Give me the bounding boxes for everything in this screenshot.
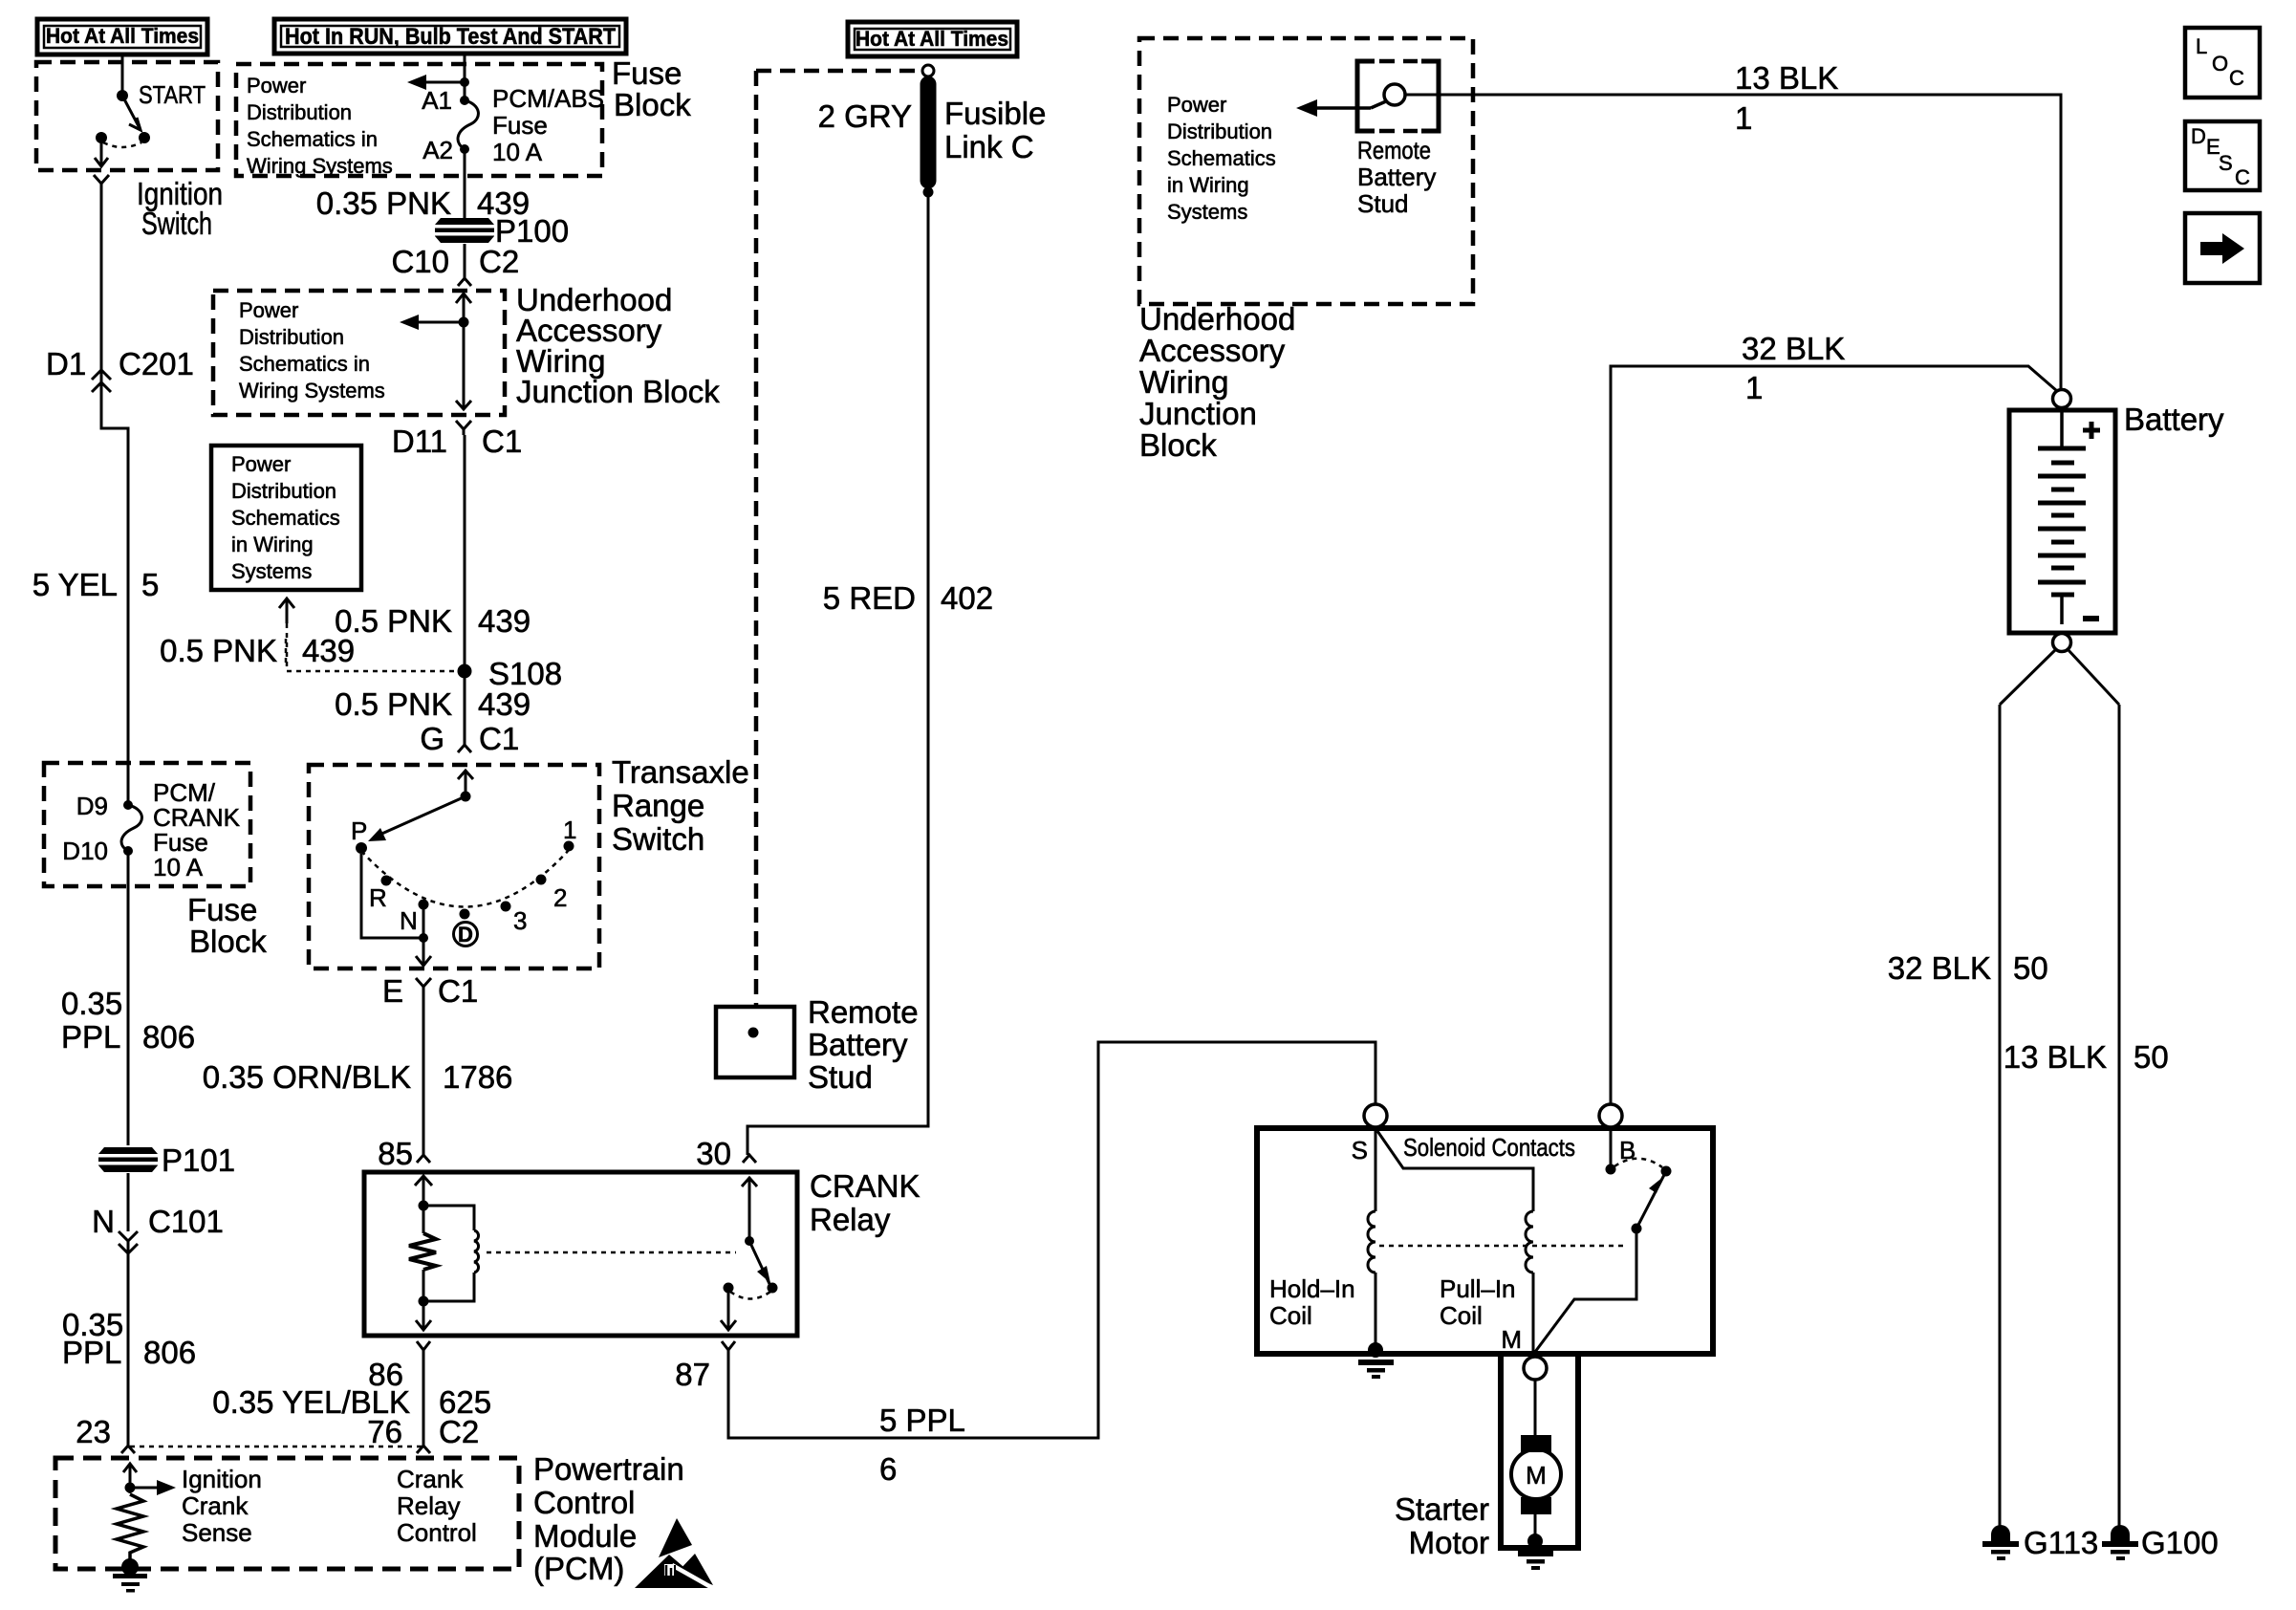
- svg-text:D: D: [2191, 124, 2206, 148]
- label Powertrain Control Module (PCM): [533, 1451, 684, 1586]
- svg-text:5: 5: [141, 567, 159, 602]
- svg-text:Hot At All Times: Hot At All Times: [856, 27, 1008, 51]
- svg-text:Systems: Systems: [231, 559, 312, 583]
- ground at PCM: [113, 1558, 147, 1593]
- wire D11 to S108: [464, 435, 466, 671]
- svg-text:Hold–In: Hold–In: [1269, 1274, 1355, 1303]
- wire S108 down, female connector G/C1: [458, 671, 471, 752]
- wire 86 to PCM 76: [422, 1356, 425, 1446]
- svg-text:0.35 ORN/BLK: 0.35 ORN/BLK: [203, 1059, 411, 1095]
- svg-text:Switch: Switch: [612, 821, 704, 857]
- svg-text:5 YEL: 5 YEL: [32, 567, 118, 602]
- svg-text:Junction: Junction: [1139, 396, 1257, 431]
- wire E to relay 85: [422, 992, 425, 1155]
- svg-text:N: N: [400, 906, 418, 935]
- svg-text:C2: C2: [479, 244, 519, 279]
- pin 85 female connector: [378, 1136, 430, 1171]
- fuse PCM/CRANK 10A: [62, 778, 240, 881]
- wire label 13 BLK 50: [2004, 1039, 2169, 1075]
- wire label 5 RED 402: [823, 580, 993, 616]
- svg-text:87: 87: [675, 1357, 710, 1392]
- svg-text:G113: G113: [2024, 1525, 2098, 1560]
- svg-text:C1: C1: [482, 424, 522, 459]
- svg-text:C201: C201: [119, 346, 194, 381]
- svg-text:D: D: [458, 923, 473, 946]
- wire label 0.35 PPL 806 (upper): [61, 986, 195, 1055]
- solid box Power Distribution Schematics in Wiring Systems: [211, 446, 361, 590]
- wire label 0.5 PNK 439 (above S108): [335, 603, 531, 639]
- svg-text:Power: Power: [239, 298, 298, 322]
- svg-text:5 PPL: 5 PPL: [879, 1403, 965, 1438]
- svg-text:Distribution: Distribution: [231, 479, 336, 503]
- wire label 0.35 PNK 439: [316, 185, 530, 221]
- svg-text:32 BLK: 32 BLK: [1742, 331, 1845, 366]
- svg-text:C: C: [2235, 165, 2250, 189]
- svg-text:Fuse: Fuse: [187, 892, 257, 927]
- svg-text:Range: Range: [612, 788, 704, 823]
- svg-text:Block: Block: [614, 87, 691, 122]
- svg-text:A1: A1: [422, 86, 452, 115]
- svg-text:B: B: [1619, 1136, 1635, 1164]
- relay dashed actuator link: [487, 1251, 736, 1254]
- svg-text:Distribution: Distribution: [239, 325, 344, 349]
- wire label 32 BLK 50: [1888, 950, 2048, 986]
- PCM internal labels: [182, 1465, 477, 1547]
- svg-text:85: 85: [378, 1136, 413, 1171]
- grommet P101: [96, 1142, 235, 1178]
- wire below fuse to P101: [127, 851, 130, 1145]
- svg-text:Stud: Stud: [1357, 189, 1409, 218]
- fuse block dashed box (top): [236, 64, 602, 176]
- svg-text:PCM/ABS: PCM/ABS: [492, 84, 604, 113]
- svg-text:Coil: Coil: [1440, 1301, 1483, 1330]
- svg-text:439: 439: [302, 633, 355, 668]
- solenoid terminals S and B: [1352, 1104, 1636, 1164]
- wire label 0.35 ORN/BLK 1786: [203, 1059, 513, 1095]
- splice S108: [458, 656, 563, 691]
- svg-text:10 A: 10 A: [492, 138, 543, 166]
- svg-text:N: N: [92, 1204, 115, 1239]
- svg-text:C1: C1: [438, 973, 478, 1009]
- svg-text:Remote: Remote: [808, 994, 919, 1030]
- fuse PCM/ABS 10A: [422, 86, 478, 164]
- pin 23 female connector into PCM: [76, 1414, 135, 1453]
- transaxle switch internals: [356, 771, 574, 966]
- svg-text:806: 806: [143, 1335, 196, 1370]
- svg-text:Solenoid Contacts: Solenoid Contacts: [1403, 1133, 1575, 1162]
- svg-text:Coil: Coil: [1269, 1301, 1312, 1330]
- hold-in coil: [1269, 1128, 1394, 1379]
- banner: Hot At All Times (middle): [848, 22, 1017, 56]
- wire from banner into fuse block: [464, 54, 466, 100]
- next-page arrow box: [2185, 213, 2260, 283]
- wire label 5 YEL 5: [32, 567, 160, 602]
- CRANK relay box: [364, 1172, 797, 1336]
- svg-text:E: E: [382, 973, 403, 1009]
- wire 32 BLK solenoid B to battery: [1611, 366, 2057, 1104]
- label Fuse Block (top): [612, 55, 691, 122]
- svg-text:Systems: Systems: [1167, 200, 1247, 224]
- svg-text:32 BLK: 32 BLK: [1888, 950, 1991, 986]
- svg-text:50: 50: [2134, 1039, 2169, 1075]
- svg-text:Ignition: Ignition: [182, 1465, 262, 1493]
- branch label 0.5 PNK 439: [160, 633, 355, 668]
- M terminal: [1524, 1357, 1547, 1380]
- svg-text:C2: C2: [439, 1414, 479, 1449]
- svg-text:806: 806: [142, 1019, 195, 1055]
- svg-text:1: 1: [1745, 370, 1763, 405]
- svg-text:76: 76: [367, 1414, 402, 1449]
- svg-text:Powertrain: Powertrain: [533, 1451, 684, 1487]
- svg-text:6: 6: [879, 1451, 897, 1487]
- DESC reference box: [2185, 121, 2260, 190]
- svg-text:13 BLK: 13 BLK: [1735, 60, 1838, 96]
- svg-text:0.5 PNK: 0.5 PNK: [335, 686, 452, 722]
- pin 87 female connector: [675, 1341, 735, 1392]
- svg-text:C1: C1: [479, 721, 519, 756]
- svg-text:in Wiring: in Wiring: [1167, 173, 1249, 197]
- svg-text:Power: Power: [247, 74, 306, 98]
- svg-text:Relay: Relay: [810, 1202, 891, 1237]
- svg-text:PPL: PPL: [62, 1335, 121, 1370]
- connector C201 (double chevron): [92, 370, 111, 392]
- svg-text:M: M: [1501, 1325, 1522, 1354]
- label Ignition Switch: [137, 176, 223, 241]
- svg-text:0.35: 0.35: [61, 986, 122, 1021]
- svg-text:23: 23: [76, 1414, 111, 1449]
- LOC reference box: [2185, 28, 2260, 98]
- starter solenoid box: [1257, 1128, 1713, 1354]
- svg-text:O: O: [2212, 52, 2228, 76]
- svg-text:1: 1: [563, 816, 576, 844]
- connector C101 (double chevron down): [119, 1231, 138, 1446]
- label Underhood Accessory Wiring Junction Block (right): [1139, 301, 1295, 463]
- label Underhood Accessory Wiring Junction Block: [516, 282, 720, 409]
- svg-text:13 BLK: 13 BLK: [2004, 1039, 2107, 1075]
- label Fuse Block: [187, 892, 267, 959]
- ignition switch START contact assembly: [95, 80, 206, 166]
- svg-text:Fuse: Fuse: [492, 111, 548, 140]
- svg-text:Fusible: Fusible: [944, 96, 1046, 131]
- battery negative wires to grounds: [2000, 649, 2119, 1527]
- resistor ignition crank sense: [117, 1494, 143, 1560]
- svg-text:5 RED: 5 RED: [823, 580, 916, 616]
- svg-text:P: P: [351, 816, 367, 845]
- svg-text:A2: A2: [422, 136, 453, 164]
- svg-text:START: START: [139, 80, 206, 109]
- wire label 0.35 PPL 806 (lower): [62, 1307, 196, 1370]
- svg-text:2: 2: [553, 883, 567, 912]
- svg-text:CRANK: CRANK: [810, 1168, 921, 1204]
- solenoid contact switch: [1501, 1128, 1671, 1354]
- svg-text:1786: 1786: [443, 1059, 512, 1095]
- banner: Hot At All Times (left): [37, 19, 207, 54]
- svg-text:C: C: [2229, 66, 2244, 90]
- PCM connector boundary fine dashed line: [130, 1446, 422, 1448]
- svg-text:M: M: [1526, 1461, 1547, 1490]
- svg-text:Stud: Stud: [808, 1059, 873, 1095]
- svg-text:Starter: Starter: [1395, 1491, 1489, 1527]
- svg-text:Distribution: Distribution: [247, 100, 352, 124]
- remote battery stud (bracket symbol top right): [1296, 61, 1439, 218]
- svg-text:0.5 PNK: 0.5 PNK: [160, 633, 277, 668]
- grommet P100: [432, 213, 569, 249]
- svg-text:Battery: Battery: [2124, 402, 2224, 437]
- banner: Hot In RUN, Bulb Test And START: [274, 19, 626, 54]
- svg-text:Schematics: Schematics: [1167, 146, 1276, 170]
- wire label 0.35 YEL/BLK 625: [212, 1384, 491, 1420]
- svg-text:Junction Block: Junction Block: [516, 374, 720, 409]
- svg-text:(PCM): (PCM): [533, 1551, 624, 1586]
- svg-text:Hot At All Times: Hot At All Times: [46, 24, 199, 48]
- svg-text:Switch: Switch: [141, 206, 212, 241]
- svg-text:R: R: [369, 883, 387, 912]
- svg-text:S: S: [1352, 1136, 1368, 1164]
- svg-text:50: 50: [2013, 950, 2048, 986]
- svg-text:Block: Block: [189, 924, 267, 959]
- svg-text:D9: D9: [76, 792, 108, 820]
- junction block inner text: [239, 298, 385, 402]
- dashed junction block outline (left of fusible link): [756, 71, 918, 1007]
- svg-text:1: 1: [1735, 100, 1752, 136]
- svg-text:G100: G100: [2141, 1525, 2219, 1560]
- fuse block dashed box (PCM/CRANK fuse): [44, 763, 250, 886]
- svg-text:439: 439: [478, 686, 531, 722]
- svg-text:402: 402: [941, 580, 993, 616]
- svg-text:Underhood: Underhood: [1139, 301, 1295, 337]
- remote battery stud (solid box): [716, 994, 919, 1095]
- ground G113: [1982, 1525, 2098, 1560]
- svg-text:Motor: Motor: [1409, 1525, 1489, 1560]
- relay coil branch: [409, 1176, 479, 1330]
- svg-text:Crank: Crank: [182, 1491, 249, 1520]
- svg-text:G: G: [420, 721, 444, 756]
- svg-text:L: L: [2196, 34, 2207, 58]
- svg-text:2 GRY: 2 GRY: [818, 98, 912, 134]
- svg-text:D10: D10: [62, 837, 108, 865]
- svg-text:Schematics: Schematics: [231, 506, 340, 530]
- svg-text:Remote: Remote: [1357, 136, 1431, 164]
- pull-in coil: [1377, 1131, 1533, 1352]
- svg-text:C101: C101: [148, 1204, 224, 1239]
- svg-text:Battery: Battery: [808, 1027, 908, 1062]
- svg-text:C10: C10: [391, 244, 449, 279]
- svg-text:in Wiring: in Wiring: [231, 533, 314, 556]
- svg-text:0.35 PNK: 0.35 PNK: [316, 185, 451, 221]
- starter motor bracket: [1501, 1354, 1578, 1548]
- svg-text:Hot In RUN, Bulb Test And STAR: Hot In RUN, Bulb Test And START: [285, 24, 616, 50]
- svg-text:Wiring: Wiring: [1139, 364, 1229, 400]
- svg-text:D1: D1: [46, 346, 86, 381]
- svg-text:P101: P101: [162, 1142, 235, 1178]
- ground G100: [2102, 1525, 2219, 1560]
- arrow up to solid box with dashed branch from S108: [279, 598, 458, 671]
- svg-text:Schematics in: Schematics in: [239, 352, 370, 376]
- svg-text:S: S: [2219, 151, 2233, 175]
- svg-text:10 A: 10 A: [153, 853, 204, 881]
- PCM dashed box: [55, 1458, 519, 1569]
- wire P101 to C101: [127, 1173, 130, 1231]
- svg-text:3: 3: [513, 906, 527, 935]
- svg-text:Schematics in: Schematics in: [247, 127, 378, 151]
- svg-text:Accessory: Accessory: [1139, 333, 1286, 368]
- svg-text:Crank: Crank: [397, 1465, 464, 1493]
- wire 13 BLK stud to battery: [1405, 95, 2061, 388]
- svg-text:Power: Power: [1167, 93, 1226, 117]
- power distribution dashed box (top right): [1139, 38, 1473, 304]
- solenoid dashed actuator link: [1379, 1245, 1627, 1248]
- wire A2 to P100: [464, 149, 466, 219]
- node and arrow to power distribution: [407, 75, 469, 90]
- starter motor: [1511, 1380, 1561, 1570]
- svg-text:Control: Control: [533, 1485, 635, 1520]
- svg-text:Wiring Systems: Wiring Systems: [247, 154, 393, 178]
- female connector D11/C1: [456, 421, 471, 435]
- transaxle range switch dashed box: [309, 765, 599, 968]
- female connector E/C1: [416, 978, 431, 992]
- svg-text:Control: Control: [397, 1518, 477, 1547]
- wire from banner into ignition switch: [121, 54, 124, 96]
- relay switch branch: [721, 1178, 778, 1330]
- label Transaxle Range Switch: [612, 754, 749, 857]
- wire label 5 PPL 6: [879, 1403, 965, 1487]
- pin 86 female connector: [368, 1341, 430, 1392]
- ESD sensitive symbol: [635, 1518, 716, 1590]
- wire label 0.5 PNK 439 (below S108): [335, 686, 531, 722]
- svg-text:Link C: Link C: [944, 129, 1034, 164]
- ignition switch dashed box: [36, 62, 218, 170]
- junction block internals: [400, 294, 471, 409]
- wire P100 down, female connector C10/C2: [458, 244, 471, 286]
- pin 30 female connector: [696, 1136, 756, 1171]
- fusible link C: [818, 65, 1047, 198]
- female connector below ignition switch: [94, 175, 109, 189]
- svg-text:Fuse: Fuse: [612, 55, 682, 91]
- svg-text:Battery: Battery: [1357, 163, 1436, 191]
- label Starter Motor: [1395, 1491, 1489, 1560]
- svg-text:Distribution: Distribution: [1167, 120, 1272, 143]
- svg-text:Module: Module: [533, 1518, 637, 1554]
- svg-text:Sense: Sense: [182, 1518, 252, 1547]
- label CRANK Relay: [810, 1168, 921, 1237]
- svg-text:30: 30: [696, 1136, 731, 1171]
- transaxle position labels: [351, 816, 576, 946]
- wire ignition switch down to fuse block (5 YEL circuit): [101, 189, 128, 805]
- svg-text:439: 439: [478, 603, 531, 639]
- svg-text:Block: Block: [1139, 427, 1217, 463]
- svg-text:D11: D11: [392, 424, 447, 459]
- svg-text:Pull–In: Pull–In: [1440, 1274, 1516, 1303]
- junction block dashed box: [213, 291, 505, 415]
- battery: [2009, 390, 2224, 652]
- svg-text:Relay: Relay: [397, 1491, 460, 1520]
- fuse block inner labels: [247, 74, 604, 178]
- PCM internal: male arrow, node, resistor, ground: [123, 1464, 176, 1495]
- wire fusible link to relay 30: [747, 192, 928, 1155]
- pin 76/C2 female connector: [367, 1414, 479, 1453]
- svg-text:Wiring Systems: Wiring Systems: [239, 379, 385, 402]
- wire 87 to solenoid S (5 PPL circuit): [728, 1042, 1375, 1438]
- svg-text:Power: Power: [231, 452, 291, 476]
- svg-text:Transaxle: Transaxle: [612, 754, 749, 790]
- svg-text:PPL: PPL: [61, 1019, 120, 1055]
